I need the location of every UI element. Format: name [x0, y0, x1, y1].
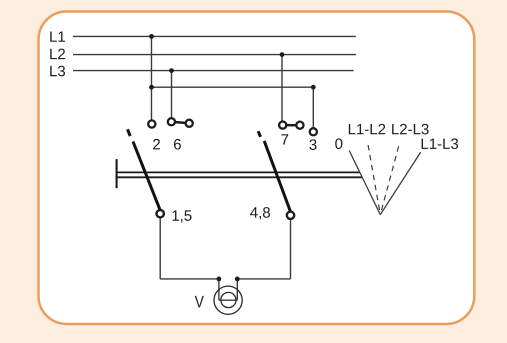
- busbar end cap: [116, 159, 118, 188]
- selector position L2-L3 dashed line: [380, 142, 400, 215]
- wire L2 line: [73, 54, 356, 56]
- wire voltmeter left lead: [218, 279, 220, 300]
- node junction branch right: [311, 85, 316, 90]
- node junction L3: [169, 68, 174, 73]
- label terminal 3: [309, 139, 316, 150]
- label position 0: [335, 138, 342, 149]
- node junction L1: [149, 34, 154, 39]
- terminal 6 right contact: [186, 120, 193, 127]
- terminal 3: [310, 128, 317, 135]
- wire vertical L2 tap to terminal 7: [281, 55, 283, 122]
- switch lever right: [264, 141, 290, 212]
- wire vertical L3 tap to terminal 6: [171, 71, 173, 118]
- terminal 4,8: [287, 212, 294, 219]
- selector position L1-L3 line: [380, 152, 420, 215]
- label terminal 1,5: [172, 210, 191, 222]
- switch lever left tip: [128, 129, 131, 136]
- wire terminal 1,5 down: [159, 218, 161, 279]
- node junction voltmeter right: [235, 277, 240, 282]
- node junction L2: [280, 52, 285, 57]
- voltmeter V1 inner circle: [221, 292, 236, 307]
- label L1: [50, 31, 65, 41]
- label terminal 2: [153, 139, 160, 149]
- contact bridge bar 7: [283, 124, 300, 127]
- label position L1-L3: [422, 138, 458, 149]
- terminal 1,5: [157, 210, 164, 217]
- label position L1-L2: [349, 124, 385, 134]
- wire voltmeter chord: [219, 299, 237, 301]
- selector position 0 line: [349, 151, 380, 215]
- wire L1 line: [73, 35, 356, 37]
- terminal 6 left contact: [168, 118, 175, 125]
- busbar upper line: [116, 171, 360, 173]
- label terminal 4,8: [250, 207, 270, 219]
- node junction voltmeter left: [217, 277, 222, 282]
- label voltmeter V: [195, 296, 204, 308]
- terminal 2: [148, 120, 155, 127]
- label L2: [50, 49, 65, 59]
- label terminal 6: [174, 139, 181, 150]
- label L3: [50, 66, 65, 77]
- switch lever left: [133, 142, 160, 210]
- contact bridge bar 6: [171, 122, 189, 124]
- terminal 7 right contact: [296, 122, 303, 129]
- wire terminal 4,8 down: [290, 220, 292, 279]
- busbar lower line: [116, 176, 362, 178]
- wire voltmeter right lead: [236, 279, 238, 300]
- switch lever right tip: [258, 131, 261, 137]
- wire vertical L1 tap to terminal 2: [151, 36, 153, 119]
- node junction branch left: [149, 85, 154, 90]
- wire L3 line: [73, 70, 354, 72]
- wire horizontal branch to terminal 3: [152, 86, 314, 88]
- label position L2-L3: [392, 124, 428, 135]
- wire bottom left horizontal: [160, 278, 219, 280]
- voltmeter V1 outer circle: [214, 286, 242, 314]
- label terminal 7: [281, 134, 288, 144]
- terminal 7 left contact: [279, 122, 286, 129]
- selector position L1-L2 dashed line: [368, 143, 381, 214]
- wire vertical branch to terminal 3: [312, 87, 314, 128]
- wire bottom right horizontal: [237, 278, 290, 280]
